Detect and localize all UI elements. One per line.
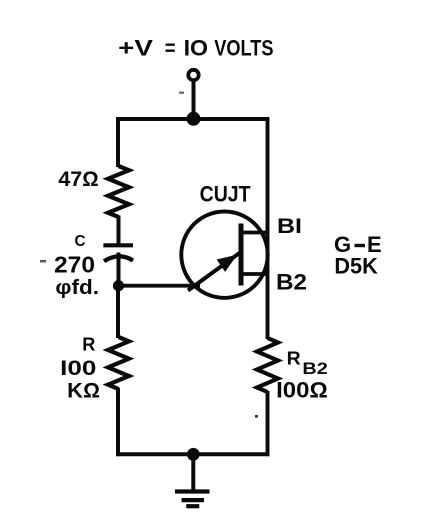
svg-text:47Ω: 47Ω	[58, 168, 98, 191]
svg-text:C: C	[75, 233, 86, 250]
wire capacitor to emitter node	[117, 253, 121, 288]
label C designator	[75, 233, 86, 250]
label B2	[276, 270, 307, 295]
label R value 100	[60, 357, 96, 380]
wire ground stub	[191, 454, 195, 491]
wire top rail	[116, 117, 269, 121]
svg-text:BI: BI	[277, 215, 302, 238]
resistor RB2	[257, 338, 278, 392]
svg-text:I00: I00	[60, 357, 96, 380]
label R unit Kohm	[67, 379, 100, 402]
label RB2 value 100ohm	[276, 378, 328, 403]
terminal +V	[188, 70, 198, 80]
label B1	[277, 215, 302, 238]
wire left vertical upper	[116, 117, 120, 167]
transistor Q1 CUJT circle	[181, 212, 267, 298]
wire B1 lead	[242, 231, 268, 235]
label RB2 designator	[287, 347, 328, 378]
label C unit pfd	[55, 277, 99, 299]
svg-text:KΩ: KΩ	[67, 379, 100, 402]
wire emitter horizontal	[119, 284, 201, 288]
wire resistor to capacitor	[117, 216, 121, 244]
svg-text:B2: B2	[302, 359, 327, 378]
svg-text:CUJT: CUJT	[200, 181, 251, 206]
svg-text:+V: +V	[118, 36, 153, 61]
transistor emitter diagonal	[188, 252, 242, 291]
wire B2 lead	[242, 272, 268, 276]
label C value 270	[54, 251, 95, 277]
stray mark left of 270	[40, 260, 46, 262]
ground bar 3	[186, 504, 199, 508]
stray speck near RB2	[255, 415, 258, 418]
capacitor C bottom curved plate	[104, 256, 133, 261]
svg-text:φfd.: φfd.	[55, 277, 99, 299]
transistor emitter arrowhead	[218, 256, 235, 270]
svg-text:270: 270	[54, 251, 95, 277]
label R designator	[82, 334, 95, 355]
label CUJT	[200, 181, 251, 206]
svg-text:I00Ω: I00Ω	[276, 378, 328, 403]
wire bottom rail	[116, 452, 269, 456]
transistor base bar	[239, 224, 244, 286]
wire supply stub	[192, 80, 196, 120]
resistor 47ohm	[108, 166, 129, 217]
capacitor C top plate	[103, 243, 133, 247]
ground bar 2	[182, 498, 205, 502]
svg-text:D5K: D5K	[334, 253, 378, 278]
node +V supply label	[118, 36, 273, 61]
svg-text:B2: B2	[276, 270, 307, 295]
node junction dot ground	[187, 448, 200, 461]
label D5K	[334, 253, 378, 278]
ground bar 1	[175, 489, 210, 493]
svg-text:IO: IO	[184, 36, 209, 61]
svg-text:VOLTS: VOLTS	[214, 36, 273, 61]
node junction dot emitter	[113, 280, 124, 291]
resistor R 100K	[108, 337, 129, 389]
label G-E	[334, 232, 382, 257]
label 47ohm value	[58, 168, 98, 191]
svg-text:=: =	[165, 36, 176, 61]
svg-text:R: R	[287, 347, 301, 368]
svg-text:R: R	[82, 334, 95, 355]
wire right vertical lower	[266, 391, 270, 456]
node junction dot top	[187, 112, 201, 126]
wire right vertical upper	[266, 117, 270, 339]
wire left vertical bottom	[116, 388, 120, 456]
wire left vertical lower	[116, 286, 120, 338]
stray mark above rail	[179, 92, 184, 94]
